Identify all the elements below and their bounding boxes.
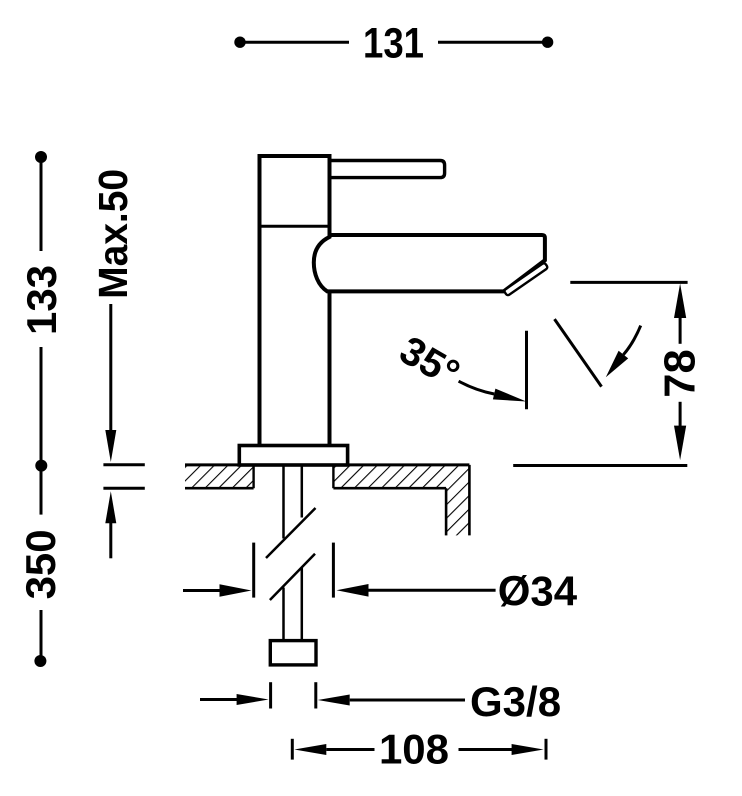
svg-text:78: 78 — [657, 349, 705, 397]
svg-text:350: 350 — [17, 529, 64, 599]
svg-text:133: 133 — [18, 265, 65, 335]
svg-text:131: 131 — [363, 20, 424, 68]
svg-text:G3/8: G3/8 — [470, 678, 561, 725]
svg-text:Ø34: Ø34 — [498, 568, 578, 615]
svg-text:108: 108 — [379, 726, 449, 773]
svg-text:Max.50: Max.50 — [90, 169, 136, 299]
